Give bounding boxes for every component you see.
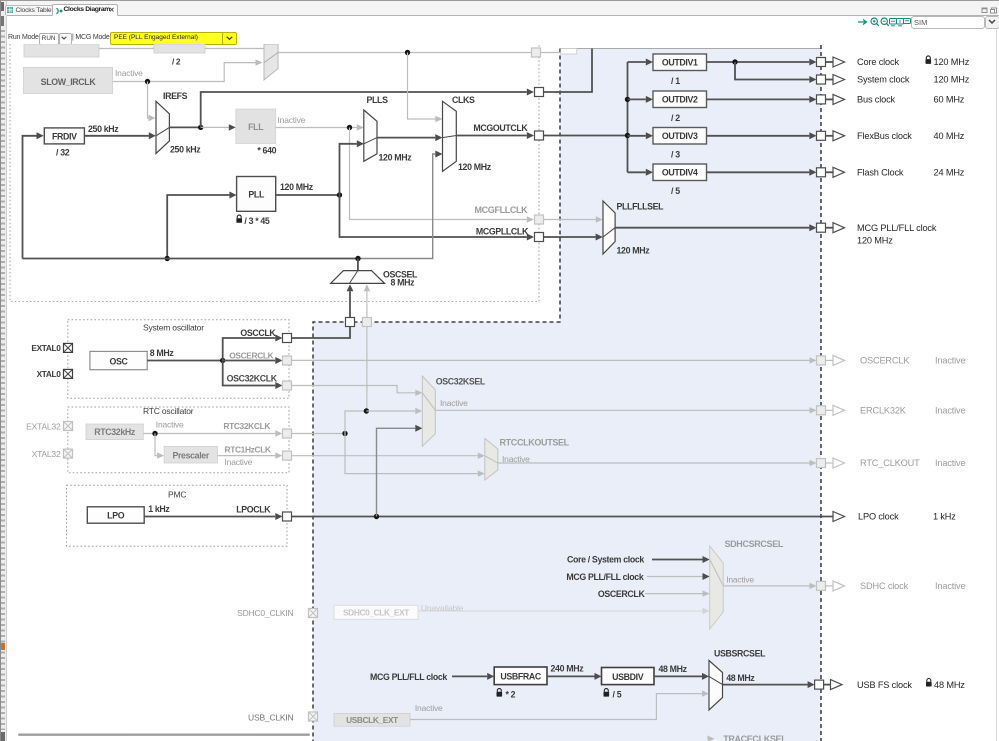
label 48 MHz (USBDIV out) [659,664,688,674]
junction OSCSEL feed on OSC32KSEL input 2 [364,408,369,413]
svg-text:8 MHz: 8 MHz [150,348,175,358]
value USB FS clock [934,680,965,690]
MCG region dotted border [10,44,539,302]
block USBCLK_EXT (inactive) [334,713,410,726]
svg-text:Prescaler: Prescaler [172,450,209,460]
svg-text:LPOCLK: LPOCLK [236,505,271,515]
mux IREFS [156,101,169,153]
divider /2 value label [172,57,181,67]
value RTC_CLKOUT Inactive [935,458,966,468]
label EXTAL0 [31,343,61,353]
port System clock [817,75,845,85]
junction OSCSEL output [355,256,360,261]
svg-text:Inactive: Inactive [440,398,468,408]
wire MCGPLLCLK to SIM [340,195,603,241]
port OSCERCLK output (inactive) [817,355,845,365]
svg-text:System clock: System clock [857,75,910,85]
svg-text:OUTDIV2: OUTDIV2 [662,94,698,104]
port FlexBus clock [817,131,845,141]
svg-text:EXTAL0: EXTAL0 [31,343,61,353]
svg-text:/ 32: / 32 [56,148,70,158]
svg-text:PLL: PLL [248,190,265,200]
lock icon USBDIV [604,689,610,697]
label Flash clock [857,168,904,178]
wire PLL to PLLS input 2 [340,140,365,195]
wire bus to OUTDIV3 [628,132,654,139]
junction PLL feed [165,256,170,261]
svg-text:Inactive: Inactive [278,115,306,125]
svg-text:MCG PLL/FLL clock: MCG PLL/FLL clock [370,672,447,682]
svg-text:MCG PLL/FLL clock: MCG PLL/FLL clock [566,572,643,582]
label Inactive (RTC32kHz) [156,419,184,429]
wire MCG PLL/FLL to USBFRAC [452,673,494,680]
svg-text:120 MHz: 120 MHz [934,75,970,85]
wire OSCCLK to port [223,335,283,361]
svg-text:USB FS clock: USB FS clock [857,680,912,690]
wire OSCCLK to FRDIV input [23,132,44,258]
lock icon USB FS clock [926,679,932,687]
label OSCSEL [383,269,418,279]
svg-text:Flash Clock: Flash Clock [857,168,904,178]
port RTC1HzCLK (inactive) [283,451,292,460]
svg-text:120 MHz: 120 MHz [617,246,651,256]
port MCGFFCLK [535,88,544,97]
block LPO [87,507,144,523]
mcg mode combo (yellow) [110,32,225,45]
label RTC1HzCLK [225,445,271,455]
toolbar screen icon 3 [903,18,911,26]
svg-text:48 MHz: 48 MHz [659,664,688,674]
wire MCG PLL/FLL to SDHCSRCSEL input 2 [647,573,710,580]
mux PLLFLLSEL [603,201,615,254]
svg-text:LPO clock: LPO clock [858,512,899,522]
label MCG PLL/FLL clock source (USB) [370,672,447,682]
tab Clocks Diagram text [64,6,110,13]
wire RTC32kHz to Prescaler (inactive) [155,434,164,459]
svg-text:MCGFLLCLK: MCGFLLCLK [475,205,529,215]
label XTAL32 [32,449,61,459]
label Inactive (SLOW_IRCLK) [115,68,143,78]
svg-text:SLOW_IRCLK: SLOW_IRCLK [41,77,97,87]
label 120 MHz (CLKS) [458,162,492,172]
label XTAL0 [37,369,62,379]
wire OSC32K into OSCSEL input 2 (inactive) [364,284,370,411]
label TRACECLKSEL [723,734,787,741]
svg-text:Core clock: Core clock [857,57,899,67]
junction OSC output [220,358,225,363]
label MCGFLLCLK [475,205,529,215]
block RTC32kHz (inactive) [86,424,143,440]
label Inactive (SDHCSRCSEL) [726,574,754,584]
toolbar zoom-in icon [870,17,880,27]
label PLL scale value [244,216,270,226]
mcg mode label [72,34,110,41]
wire RTC32kHz output (inactive) [143,430,282,436]
wire USBCLK_EXT to USBSRCSEL input 2 (inactive) [410,690,709,719]
wire IREFS output [169,126,200,128]
wire bus to OUTDIV1 [628,59,654,66]
label USB_CLKIN [248,712,294,722]
label 120 MHz (PLLS) [379,152,413,162]
svg-text:XTAL0: XTAL0 [37,369,62,379]
tab Clocks Table [5,5,53,15]
svg-text:LPO: LPO [107,511,125,521]
wire RTC_CLKOUT (inactive) [498,460,817,466]
port MCGIRCLK (inactive) [532,48,541,57]
lock icon Core clock [926,56,932,64]
svg-text:Inactive: Inactive [935,406,966,416]
pin EXTAL32 [64,422,73,431]
svg-text:Inactive: Inactive [225,457,253,467]
svg-text:SDHC0_CLKIN: SDHC0_CLKIN [237,608,293,618]
wire Prescaler output (inactive) [217,452,282,458]
run mode combo [39,33,59,45]
sidebar mark 2 [1,16,4,26]
wire ERCLK32K (inactive) [435,407,816,413]
label PLLFLLSEL [617,202,665,212]
block OSC [90,351,147,369]
wire MCGOUTCLK [456,132,627,139]
svg-text:24 MHz: 24 MHz [934,168,965,178]
label RTCCLKOUTSEL [500,437,570,447]
value Flash clock [934,168,965,178]
SIM combo chevron button [985,16,999,29]
toolbar screen icon 2 [896,18,904,27]
block USBFRAC [494,667,547,685]
block FLL (inactive) [236,109,276,144]
svg-text:/ 1: / 1 [671,76,680,86]
label OSCERCLK source (SDHC) [598,589,646,599]
value OSCERCLK Inactive [935,356,966,366]
wire IREFS to FLL (inactive) [201,124,236,130]
port LPOCLK [283,512,292,521]
wire OUTDIV4 to Flash clock port [707,169,817,176]
label 120 MHz (PLLFLLSEL) [617,246,651,256]
label System clock [857,75,910,85]
label OSC32KCLK [227,374,278,384]
label EXTAL32 [26,421,61,431]
wire SLOW_IRCLK to IREFS input 1 [148,82,156,122]
sidebar mark orange [1,643,5,650]
junction PLL output [337,192,342,197]
svg-text:Unavailable: Unavailable [421,603,464,613]
label FlexBus clock [857,131,912,141]
label SDHC0_CLKIN [237,608,293,618]
svg-text:RTC oscillator: RTC oscillator [143,406,194,416]
svg-text:120 MHz: 120 MHz [379,152,413,162]
port OSCCLK at SIM top border [346,318,355,327]
label Core / System clock source [567,555,644,565]
wire USB FS clock [723,681,815,688]
svg-text:/ 2: / 2 [172,57,181,67]
svg-text:OSCERCLK: OSCERCLK [229,351,273,361]
label USB FS clock output [857,680,912,690]
svg-text:120 MHz: 120 MHz [280,182,314,192]
wire RTC1HzCLK to RTCCLKOUTSEL input 1 (inactive) [292,453,485,459]
value SDHC clock Inactive [935,581,966,591]
wire OSCERCLK to SDHCSRCSEL input 3 (inactive) [645,590,710,596]
svg-text:240 MHz: 240 MHz [551,664,585,674]
wire SLOW_IRCLK to IRCLK mux [113,59,263,81]
svg-text:Inactive: Inactive [415,703,443,713]
wire OUTDIV2 to Bus clock port [707,96,817,103]
SIM combo box [911,16,985,29]
wire OUTDIV1 to Core clock port [707,59,817,66]
block OUTDIV2 [653,91,707,108]
svg-text:FlexBus clock: FlexBus clock [857,131,912,141]
value Core clock [934,57,970,67]
svg-text:USBSRCSEL: USBSRCSEL [714,649,766,659]
wire bus to OUTDIV4 [628,169,654,176]
label 48 MHz (USBSRCSEL) [726,673,755,683]
svg-text:1 kHz: 1 kHz [148,504,170,514]
run mode chevron glyph [61,36,67,41]
label USBSRCSEL [714,649,766,659]
port Bus clock [817,94,845,104]
sidebar mark 1 [1,2,4,11]
block FRDIV [44,128,84,144]
pin SDHC0_CLKIN (inactive) [309,609,318,618]
value LPO clock [933,512,956,522]
svg-text:Inactive: Inactive [935,356,966,366]
label USBFRAC multiply value [506,689,516,699]
mux OSC32KSEL (inactive) [422,376,435,446]
lock icon PLL [236,215,242,223]
wire Core/System clock to SDHCSRCSEL input 1 [652,556,710,563]
pin XTAL0 [64,369,73,378]
port MCGPLLCLK [535,233,544,242]
svg-text:FLL: FLL [248,122,264,132]
svg-text:1 kHz: 1 kHz [933,512,956,522]
toolbar zoom-out icon [880,17,890,27]
svg-text:Inactive: Inactive [156,419,184,429]
svg-text:MCGPLLCLK: MCGPLLCLK [476,226,529,236]
block OUTDIV4 [653,164,707,181]
tab bar background [1,1,999,16]
junction LPO branch [374,514,379,519]
block OUTDIV1 [653,54,707,71]
wire MCGFFCLK to SIM [201,49,592,128]
svg-text:RTC1HzCLK: RTC1HzCLK [225,445,271,455]
wire USBFRAC to USBDIV [547,673,602,680]
port SDHC clock (inactive) [817,581,845,591]
wire OSCSEL to bus [357,259,359,271]
svg-text:40 MHz: 40 MHz [934,131,965,141]
RTC oscillator group box [68,407,289,473]
label CLKS [452,95,475,105]
svg-text:MCGOUTCLK: MCGOUTCLK [473,123,528,133]
block Prescaler (inactive) [164,446,217,463]
svg-text:/ 3: / 3 [671,149,680,159]
svg-text:250 kHz: 250 kHz [88,124,119,134]
label MCGOUTCLK [473,123,528,133]
label 240 MHz [551,664,585,674]
svg-text:OSCERCLK: OSCERCLK [860,356,910,366]
junction MCGIRCLK [405,50,410,55]
mcg mode chevron button (yellow) [222,32,237,45]
port ERCLK32K (inactive) [817,405,845,415]
label RTC32KCLK [223,421,270,431]
label OUTDIV1 value [671,76,680,86]
tab Clocks Diagram icon [55,7,63,15]
svg-text:PLLS: PLLS [367,95,389,105]
port USB FS clock [815,680,842,690]
svg-text:USBDIV: USBDIV [612,672,644,682]
svg-text:OSCERCLK: OSCERCLK [598,589,646,599]
svg-text:Inactive: Inactive [935,581,966,591]
toolbar arrow icon [858,18,870,26]
label LPOCLK [236,505,271,515]
SIM combo chevron glyph [988,19,996,25]
label RTC_CLKOUT output [860,458,920,468]
window maximize icon [990,7,998,14]
svg-text:250 kHz: 250 kHz [170,144,201,154]
svg-text:* 2: * 2 [506,689,516,699]
wire OSCCLK to PLL input [167,192,236,259]
svg-text:RTCCLKOUTSEL: RTCCLKOUTSEL [500,437,570,447]
label Inactive (USBCLK_EXT) [415,703,443,713]
svg-text:8 MHz: 8 MHz [391,277,416,287]
wire SDHC clock (inactive) [723,583,816,589]
PMC group box [67,485,288,546]
label USBDIV divide value [613,689,622,699]
label IREFS [163,91,188,101]
junction Core/System split [732,59,737,64]
label 250 kHz (FRDIV out) [88,124,119,134]
junction RTC32KCLK split [342,431,347,436]
wire PLL output [276,194,340,196]
svg-text:OUTDIV3: OUTDIV3 [662,131,698,141]
label MCG PLL/FLL clock source (SDHC) [566,572,643,582]
wire PLLS to CLKS input 2 [377,134,443,141]
svg-text:OSC32KCLK: OSC32KCLK [227,374,278,384]
svg-text:/ 5: / 5 [671,186,680,196]
svg-text:Inactive: Inactive [935,458,966,468]
block FAST_IRCLK (cut at top) [24,44,99,57]
junction FLL output [347,125,352,130]
label Unavailable [421,603,464,613]
wire FRDIV to IREFS input 2 [84,132,155,139]
junction on SLOW_IRCLK wire [145,79,150,84]
port Core clock [817,57,845,67]
value ERCLK32K Inactive [935,406,966,416]
svg-text:SDHCSRCSEL: SDHCSRCSEL [725,539,784,549]
port Flash clock [817,167,845,177]
wire OSCCLK into SIM [292,327,351,338]
wire USBDIV to USBSRCSEL input 1 [654,673,709,680]
RTC oscillator title [143,406,194,416]
tab Clocks Diagram (active) [52,4,118,16]
svg-text:SDHC clock: SDHC clock [860,581,909,591]
svg-text:FRDIV: FRDIV [52,131,77,141]
svg-text:ERCLK32K: ERCLK32K [860,406,907,416]
pin XTAL32 [64,449,73,458]
label MCG PLL/FLL clock [857,223,937,233]
svg-text:USB_CLKIN: USB_CLKIN [248,712,294,722]
port OSCCLK [283,334,292,343]
svg-text:USBFRAC: USBFRAC [500,672,542,682]
tab Clocks Table text [16,7,52,14]
wire to OSC32KSEL input 2 arrow (inactive) [366,408,422,414]
label 8 MHz (OSC out) [150,348,175,358]
svg-text:CLKS: CLKS [452,95,475,105]
SIM region top edge [560,48,821,50]
wire IRCLK to CLKS input 1 (inactive) [408,53,443,123]
port MCG PLL/FLL clock [817,223,845,233]
mux PLLS [364,110,377,161]
label Inactive (RTC1HzCLK) [225,457,253,467]
white notch at SIM top-left [561,49,577,55]
port MCGFLLCLK (inactive) [535,215,544,224]
SIM region right dashed border [820,45,822,741]
right edge separator [996,30,997,741]
value FlexBus clock [934,131,965,141]
System oscillator group box [68,320,289,399]
label SDHCSRCSEL [725,539,784,549]
sidebar mark 7 [1,732,5,741]
svg-text:48 MHz: 48 MHz [934,680,965,690]
mux SDHCSRCSEL (inactive) [710,546,724,629]
junction RTC32kHz output [152,431,157,436]
label OUTDIV2 value [671,113,680,123]
block SDHC0_CLK_EXT (unavailable) [334,605,418,619]
System oscillator title [143,323,204,333]
port OSC32KCLK (inactive) [283,381,292,390]
wire System clock branch [735,62,817,83]
svg-text:SDHC0_CLK_EXT: SDHC0_CLK_EXT [343,607,409,617]
port RTC_CLKOUT (inactive) [817,458,845,468]
junction bus OUTDIV3 [625,133,630,138]
svg-text:IREFS: IREFS [163,91,188,101]
svg-text:60 MHz: 60 MHz [934,95,965,105]
svg-text:/ 2: / 2 [671,113,680,123]
wire MCGFLLCLK (inactive) [350,128,603,223]
run mode label [8,34,39,41]
wire TRACECLKSEL stub (inactive) [708,736,715,741]
wire RTC32KCLK up to OSC32KSEL input 2 (inactive) [345,411,366,434]
junction bus OUTDIV2 [625,97,630,102]
junction IREFS output [198,125,203,130]
port RTC32KCLK (inactive) [283,429,292,438]
svg-text:48 MHz: 48 MHz [726,673,755,683]
value System clock [934,75,970,85]
svg-text:/ 3 * 45: / 3 * 45 [244,216,270,226]
wire MCGOUTCLK bus vertical [627,62,629,172]
svg-text:OSCCLK: OSCCLK [240,328,276,338]
svg-text:* 640: * 640 [257,145,276,155]
window minimize icon [981,7,989,14]
wire SDHC0_CLK_EXT to SDHCSRCSEL input 4 (unavailable) [418,608,710,614]
wire OSC distribution bus [23,258,359,260]
SIM region lower blue area [313,322,821,741]
mux OSCSEL [331,271,385,284]
label Bus clock [857,95,896,105]
wire divider /2 to IRCLK mux [205,48,264,50]
wire OSCERCLK across SIM (inactive) [292,357,817,363]
wire OUTDIV3 to FlexBus clock port [707,132,817,139]
wire LPO clock across SIM [292,512,845,522]
svg-text:USBCLK_EXT: USBCLK_EXT [346,715,398,725]
wire FLL output to PLLS input 1 [276,124,364,130]
label OUTDIV4 value [671,186,680,196]
label 250 kHz (IREFS out) [170,144,201,154]
label OSC32KSEL [436,376,486,386]
svg-text:RTC_CLKOUT: RTC_CLKOUT [860,458,920,468]
svg-text:EXTAL32: EXTAL32 [26,421,61,431]
label OSCERCLK (System osc) [229,351,273,361]
wire FAST_IRCLK to divider [99,48,154,50]
SIM region left dashed border [313,49,560,741]
